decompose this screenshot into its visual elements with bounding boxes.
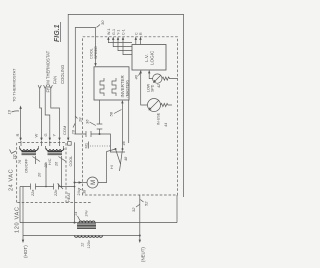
motor M1 xyxy=(74,149,116,188)
svg-text:120 VAC: 120 VAC xyxy=(15,206,21,233)
caps wire vertical xyxy=(20,186,75,188)
svg-text:L.V.: L.V. xyxy=(144,54,149,62)
square wave 1 xyxy=(100,78,104,96)
lamp IN-USE xyxy=(148,99,161,112)
transformer 120v winding xyxy=(75,236,103,238)
svg-text:SPD: SPD xyxy=(150,84,154,92)
switch arm hi xyxy=(115,148,121,164)
svg-text:28: 28 xyxy=(78,117,83,123)
svg-text:M1: M1 xyxy=(84,142,89,148)
svg-text:C-1: C-1 xyxy=(122,29,126,35)
svg-text:22b: 22b xyxy=(54,190,58,197)
label 14 xyxy=(74,212,80,221)
label LOW SPD xyxy=(147,83,155,92)
wire COM arrow into relay box xyxy=(62,126,69,141)
wire from inverter corner to switch area xyxy=(128,100,130,143)
square wave 2 xyxy=(112,78,116,96)
svg-text:26: 26 xyxy=(71,129,76,135)
rail 24v top xyxy=(19,187,21,223)
svg-text:W: W xyxy=(34,134,39,138)
svg-text:FIG.1: FIG.1 xyxy=(54,24,61,42)
relay box dashed extension xyxy=(66,202,91,204)
relay coil B (H/C) xyxy=(46,149,65,155)
svg-text:120v: 120v xyxy=(87,240,91,248)
24v tap wire xyxy=(74,142,76,223)
svg-text:COOLING: COOLING xyxy=(60,65,65,84)
svg-text:24v: 24v xyxy=(77,189,81,195)
svg-text:36: 36 xyxy=(85,119,90,124)
svg-text:40: 40 xyxy=(134,74,139,79)
svg-text:H/C: H/C xyxy=(48,158,52,165)
svg-text:IN-USE: IN-USE xyxy=(157,112,161,125)
LV bottom wire to LOW SPD lamp xyxy=(148,70,153,79)
resistor R42 xyxy=(162,77,178,80)
wire R to thermostat xyxy=(15,106,22,142)
svg-text:SPEED: SPEED xyxy=(94,46,98,59)
label 30 xyxy=(97,20,106,28)
svg-text:(HOT): (HOT) xyxy=(23,245,28,258)
wire G fan xyxy=(43,85,51,141)
svg-text:M: M xyxy=(91,180,97,185)
svg-text:G-1: G-1 xyxy=(112,29,116,35)
relay A contact xyxy=(20,146,41,164)
LV bottom wire to IN-USE lamp xyxy=(140,70,148,105)
relay coil A (ON/OFF) xyxy=(20,149,39,155)
svg-text:Y-1: Y-1 xyxy=(117,30,121,35)
wire stubs into relay box xyxy=(21,141,60,146)
svg-text:C: C xyxy=(134,32,138,35)
LV logic box xyxy=(132,45,166,71)
svg-text:HI: HI xyxy=(110,165,114,169)
svg-text:30: 30 xyxy=(100,20,105,25)
label 28 with leader xyxy=(76,117,83,124)
switch arm lo xyxy=(120,148,124,171)
svg-text:HEAT: HEAT xyxy=(67,191,71,202)
contact in caps wire xyxy=(58,184,64,190)
rail 120v vertical xyxy=(23,235,140,237)
FIG.1 xyxy=(54,22,61,42)
label 58 xyxy=(109,110,122,117)
svg-text:10: 10 xyxy=(12,154,17,159)
wire 58 to inverter xyxy=(121,100,123,149)
label 16 xyxy=(7,109,20,114)
svg-text:24 VAC: 24 VAC xyxy=(9,169,15,191)
transformer core xyxy=(77,224,96,229)
contact links to caps wire xyxy=(46,162,62,187)
svg-text:TO THERMOSTAT: TO THERMOSTAT xyxy=(12,68,17,102)
wire W from thermostat xyxy=(34,85,43,141)
svg-text:ON/OFF: ON/OFF xyxy=(25,158,29,173)
svg-text:16: 16 xyxy=(7,109,12,114)
svg-text:(MASTER): (MASTER) xyxy=(126,80,130,97)
LV wire R xyxy=(139,32,143,45)
svg-text:(NEUT): (NEUT) xyxy=(141,247,146,262)
label M1 xyxy=(84,142,89,149)
24v return wire xyxy=(176,195,178,223)
inverter box xyxy=(94,67,130,100)
svg-text:58: 58 xyxy=(109,111,114,116)
resistor R44 xyxy=(161,103,173,106)
LV wire C xyxy=(134,32,138,45)
svg-text:W-1: W-1 xyxy=(107,28,111,35)
dotted linkage xyxy=(90,145,111,147)
svg-text:R: R xyxy=(139,32,143,35)
rail 120v top xyxy=(22,187,24,236)
rail 24v vertical xyxy=(20,222,177,224)
label 40 with leader xyxy=(134,71,142,80)
svg-text:R: R xyxy=(15,134,20,137)
HOT stub xyxy=(22,236,28,259)
svg-text:Y: Y xyxy=(52,134,57,137)
label 38 xyxy=(78,188,87,194)
svg-text:FAN: FAN xyxy=(53,76,58,84)
svg-text:COOL: COOL xyxy=(69,156,73,167)
capacitor in wire30 leg xyxy=(86,131,125,152)
svg-text:G: G xyxy=(43,133,48,136)
control board dashed box xyxy=(83,37,178,195)
svg-text:32: 32 xyxy=(131,207,136,212)
label COOL SPEED xyxy=(90,46,98,59)
svg-text:20: 20 xyxy=(38,172,42,178)
svg-text:INVERTER: INVERTER xyxy=(120,75,125,97)
label 52 xyxy=(140,200,148,207)
lamp LOW SPD xyxy=(153,74,162,83)
capacitor C22b xyxy=(54,184,59,190)
svg-text:24v: 24v xyxy=(85,210,89,216)
capacitor C22a xyxy=(31,184,36,190)
svg-text:44: 44 xyxy=(164,123,168,127)
svg-text:26: 26 xyxy=(55,161,59,167)
svg-text:COM: COM xyxy=(62,126,67,135)
relay B contact xyxy=(46,146,67,164)
svg-text:52: 52 xyxy=(144,201,149,206)
relay dashed box xyxy=(17,142,66,202)
label 36 xyxy=(85,119,96,126)
wire 30 cool speed xyxy=(75,28,96,135)
cap to inverter wire xyxy=(97,100,103,135)
LV wires to terminals W-1 G-1 Y-1 C-1 xyxy=(107,28,132,42)
label 32 xyxy=(131,205,140,213)
label 10 with leader xyxy=(10,150,18,160)
neutral junction and arrow xyxy=(139,195,146,262)
svg-text:22a: 22a xyxy=(31,190,35,197)
label 26 with leader xyxy=(71,123,76,136)
terminal bump on relay box edge xyxy=(68,142,72,146)
transformer 24v winding xyxy=(79,221,95,223)
outer solid common bus / frame L xyxy=(68,14,183,197)
wire Y cooling xyxy=(49,85,61,141)
svg-text:LOGIC: LOGIC xyxy=(150,50,155,65)
